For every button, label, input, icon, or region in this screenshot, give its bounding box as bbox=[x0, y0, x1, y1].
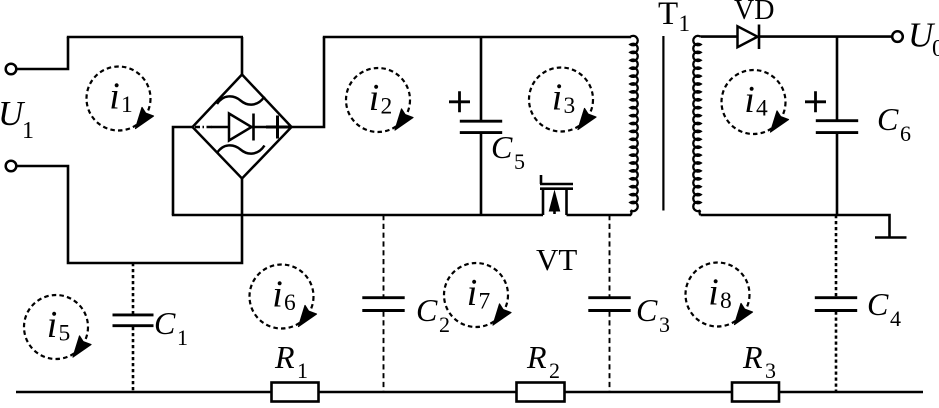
bridge rectifier diamond bbox=[193, 75, 292, 179]
svg-text:2: 2 bbox=[381, 94, 393, 120]
wire: secondary top to diode VD bbox=[701, 35, 739, 38]
label C5 bbox=[491, 129, 525, 174]
capacitor C4 plates bbox=[815, 298, 857, 311]
svg-text:T: T bbox=[658, 0, 678, 32]
wire: secondary bottom to ground bbox=[701, 215, 890, 238]
capacitor C1 dotted lead lower bbox=[132, 327, 135, 392]
capacitor C2 dashed lead lower bbox=[383, 312, 385, 393]
svg-text:i: i bbox=[552, 77, 563, 119]
bridge internal line bbox=[211, 126, 290, 129]
svg-text:i: i bbox=[467, 272, 478, 314]
svg-text:3: 3 bbox=[564, 93, 576, 119]
wire: top terminal to top-left corner bbox=[17, 37, 69, 69]
svg-text:3: 3 bbox=[659, 312, 670, 337]
svg-text:C: C bbox=[867, 286, 889, 322]
label T1 bbox=[658, 0, 690, 36]
wire: bottom terminal down and across lower-left loop bbox=[17, 166, 243, 263]
svg-text:5: 5 bbox=[514, 149, 525, 174]
wire: MOSFET to transformer primary bottom bbox=[567, 214, 632, 217]
capacitor C1 dotted lead upper bbox=[132, 263, 135, 314]
ground bbox=[875, 236, 907, 239]
svg-text:6: 6 bbox=[900, 121, 911, 146]
svg-text:2: 2 bbox=[549, 358, 560, 383]
svg-text:R: R bbox=[526, 339, 547, 375]
svg-text:i: i bbox=[109, 76, 120, 118]
svg-text:7: 7 bbox=[479, 289, 491, 315]
wire: stub down to bridge top vertex bbox=[241, 37, 244, 75]
label U0 bbox=[908, 16, 939, 63]
current loop i4 bbox=[722, 70, 789, 134]
label U1 bbox=[0, 94, 34, 144]
transformer T1 secondary winding bbox=[693, 36, 700, 215]
label C6 bbox=[877, 101, 911, 146]
svg-text:VD: VD bbox=[734, 0, 774, 26]
svg-text:1: 1 bbox=[22, 118, 34, 144]
label R2 bbox=[526, 339, 560, 383]
svg-text:C: C bbox=[636, 292, 658, 328]
current loop i7 bbox=[444, 263, 511, 327]
bridge AC tilde bottom bbox=[217, 145, 265, 153]
svg-text:C: C bbox=[491, 129, 513, 165]
capacitor C5 plates bbox=[460, 121, 502, 132]
svg-text:4: 4 bbox=[756, 96, 768, 122]
input terminal bottom bbox=[6, 161, 17, 172]
svg-text:6: 6 bbox=[284, 290, 296, 316]
capacitor C2 plates bbox=[362, 298, 404, 311]
current loop i2 bbox=[346, 68, 413, 132]
current loop i6 bbox=[250, 265, 317, 329]
wire: top rail left loop bbox=[67, 36, 243, 39]
capacitor C3 dashed lead lower bbox=[609, 312, 611, 393]
svg-text:C: C bbox=[416, 292, 438, 328]
current loop i8 bbox=[686, 263, 753, 327]
capacitor C3 plates bbox=[588, 298, 630, 311]
capacitor C4 dotted lead lower bbox=[835, 312, 838, 393]
svg-text:1: 1 bbox=[297, 358, 308, 383]
bridge dash-dot lead from left vertex bbox=[195, 126, 212, 129]
output terminal bbox=[892, 31, 903, 42]
label C3 bbox=[636, 292, 670, 337]
transformer core bbox=[662, 36, 664, 211]
svg-text:1: 1 bbox=[679, 11, 691, 36]
bridge diode triangle bbox=[229, 114, 252, 141]
svg-text:C: C bbox=[877, 101, 899, 137]
C6 plus sign bbox=[805, 91, 826, 112]
svg-text:R: R bbox=[742, 339, 763, 375]
label C1 bbox=[154, 305, 188, 350]
current loop i1 bbox=[87, 67, 154, 131]
svg-text:C: C bbox=[154, 305, 176, 341]
svg-text:8: 8 bbox=[720, 288, 732, 314]
bridge plus sign bbox=[266, 116, 289, 139]
label R1 bbox=[274, 339, 308, 383]
capacitor C5 branch wire lower bbox=[480, 134, 483, 215]
wire: bridge left vertex to mid rail bbox=[173, 127, 193, 215]
svg-text:i: i bbox=[744, 79, 755, 121]
MOSFET VT bbox=[540, 175, 573, 215]
wire: mid rail to MOSFET bbox=[172, 214, 543, 217]
svg-text:5: 5 bbox=[59, 321, 71, 347]
svg-text:3: 3 bbox=[765, 358, 776, 383]
wire: bridge right vertex to top rail corner bbox=[292, 37, 325, 127]
capacitor C5 branch wire upper bbox=[480, 37, 483, 121]
capacitor C1 plates bbox=[113, 315, 154, 326]
svg-text:i: i bbox=[708, 272, 719, 314]
label R3 bbox=[742, 339, 776, 383]
wire: VD to output terminal bbox=[759, 35, 892, 38]
capacitor C2 dashed lead upper bbox=[383, 215, 385, 297]
svg-text:4: 4 bbox=[890, 306, 901, 331]
resistor R2 bbox=[517, 383, 565, 402]
current loop i5 bbox=[24, 295, 91, 359]
label C4 bbox=[867, 286, 901, 331]
svg-text:1: 1 bbox=[121, 92, 133, 118]
capacitor C6 plates bbox=[816, 121, 858, 133]
current loop i3 bbox=[529, 68, 596, 132]
resistor R1 bbox=[272, 383, 319, 402]
svg-text:1: 1 bbox=[177, 325, 188, 350]
wire: top rail to transformer primary bbox=[323, 36, 631, 39]
input terminal top bbox=[6, 64, 17, 75]
label C2 bbox=[416, 292, 450, 337]
svg-text:0: 0 bbox=[932, 36, 939, 62]
svg-text:VT: VT bbox=[536, 242, 577, 277]
bridge AC tilde top bbox=[217, 96, 265, 104]
svg-text:i: i bbox=[369, 77, 380, 119]
capacitor C6 branch wire upper bbox=[836, 37, 839, 121]
C5 plus sign bbox=[449, 91, 470, 112]
svg-text:i: i bbox=[47, 304, 58, 346]
diode VD triangle bbox=[738, 26, 758, 47]
capacitor C6 branch wire lower bbox=[836, 134, 839, 215]
svg-text:R: R bbox=[274, 339, 295, 375]
svg-text:i: i bbox=[272, 274, 283, 316]
transformer T1 primary winding bbox=[631, 36, 638, 215]
bottom ground bus bbox=[16, 391, 923, 394]
capacitor C3 dashed lead upper bbox=[609, 215, 611, 297]
resistor R3 bbox=[732, 383, 779, 402]
svg-text:2: 2 bbox=[439, 312, 450, 337]
capacitor C4 dotted lead upper bbox=[835, 215, 838, 297]
bridge diode cathode bar bbox=[252, 114, 255, 141]
diode VD cathode bar bbox=[758, 25, 761, 50]
